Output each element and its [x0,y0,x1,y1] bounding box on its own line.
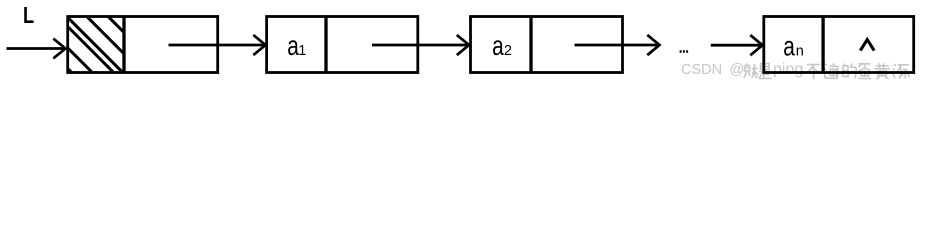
通 [824,64,838,79]
派 [893,64,910,79]
label an [783,32,804,62]
node a2 [471,17,623,73]
null mark in node an [860,40,874,51]
不 [807,65,820,80]
node an [764,17,914,73]
wire arrow into head node [7,39,66,59]
svg-text:ping: ping [773,61,803,78]
head node (hatched) [68,17,218,73]
node a1 [267,17,418,73]
蛋 [858,64,871,79]
黄 [875,63,891,79]
svg-text:2: 2 [504,43,512,59]
label a1 [287,31,306,61]
svg-text:n: n [796,43,804,59]
svg-text:CSDN: CSDN [681,62,722,78]
的 [843,64,856,79]
ellipsis dots [680,50,689,52]
svg-text:a: a [783,32,795,62]
svg-text:a: a [492,31,504,61]
svg-text:@: @ [730,62,745,78]
svg-text:L: L [23,3,34,29]
svg-text:1: 1 [298,43,306,59]
watermark CSDN [681,61,803,78]
wire arrow from head node to node a1 [169,35,266,55]
wire arrow out of node a2 [575,35,660,55]
是 [759,64,772,79]
label a2 [492,31,512,61]
wire arrow from node a1 to node a2 [372,35,469,55]
wire arrow into node an [711,35,763,55]
watermark CJK glyphs [744,63,911,79]
就 [744,64,759,79]
hatch in head node data cell [0,0,192,100]
